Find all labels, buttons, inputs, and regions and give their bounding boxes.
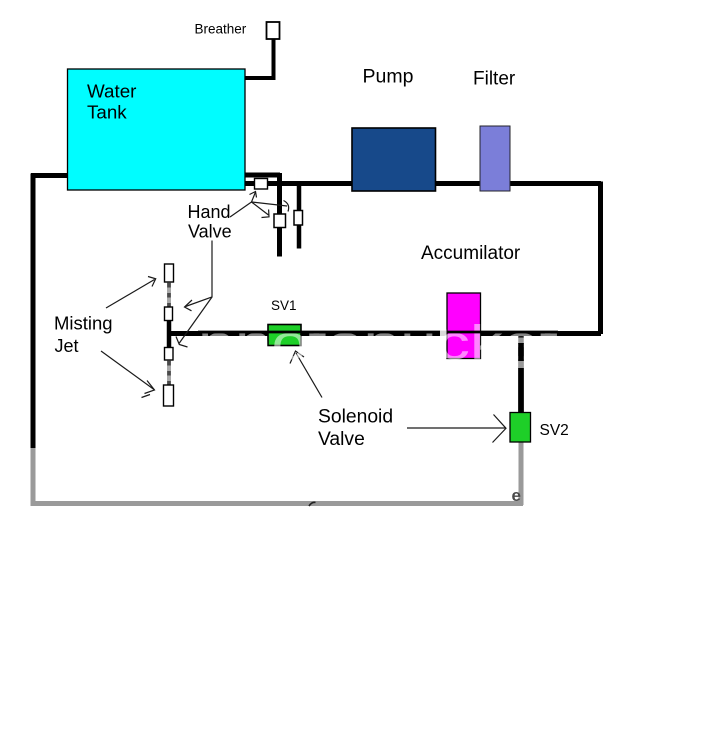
wire SV2 branch lower (grey) bbox=[519, 441, 524, 505]
solenoid valve SV1 bbox=[268, 325, 301, 346]
wire left vertical lower (grey) bbox=[31, 448, 36, 506]
arrow hand-valve down line to jet valves bbox=[176, 241, 212, 348]
svg-text:Pump: Pump bbox=[363, 66, 414, 88]
accumulator bbox=[447, 293, 481, 359]
svg-text:SV1: SV1 bbox=[271, 298, 297, 313]
hand valve box A on main pipe bbox=[255, 179, 268, 190]
svg-text:Valve: Valve bbox=[318, 429, 365, 450]
wire SV2 branch restored over watermark bbox=[518, 343, 524, 412]
svg-text:SV2: SV2 bbox=[540, 422, 569, 439]
misting jet riser: dashed segment 2 bbox=[167, 360, 171, 385]
svg-text:e: e bbox=[512, 486, 521, 505]
arrow hand-valve to box B bbox=[252, 202, 270, 218]
misting jet nozzle top bbox=[165, 264, 174, 282]
wire drop pipe 1 bbox=[277, 173, 282, 257]
svg-text:Water: Water bbox=[87, 81, 136, 102]
svg-text:Jet: Jet bbox=[55, 336, 79, 356]
misting jet riser: solid middle bbox=[167, 320, 172, 348]
arrow hand-valve to box C bbox=[252, 201, 289, 212]
arrow solenoid label to SV1 bbox=[290, 351, 322, 398]
wire right vertical pipe bbox=[598, 182, 603, 335]
jet hand valve upper bbox=[165, 307, 173, 321]
filter bbox=[480, 126, 510, 191]
solenoid valve SV2 bbox=[510, 413, 531, 443]
misting jet riser: dashed segment 1 bbox=[167, 282, 171, 307]
svg-text:Solenoid: Solenoid bbox=[318, 406, 393, 427]
svg-text:Accumilator: Accumilator bbox=[421, 243, 521, 264]
svg-text:photobucket: photobucket bbox=[198, 317, 558, 370]
watermark patches on SV2 branch bbox=[518, 338, 526, 344]
arrow misting label to top nozzle bbox=[106, 277, 156, 309]
arrow solenoid label to SV2 bbox=[407, 415, 506, 443]
jet hand valve lower bbox=[165, 348, 174, 361]
svg-text:Tank: Tank bbox=[87, 102, 127, 123]
arrow hand-valve to box A bbox=[230, 192, 257, 218]
wire drop pipe 2 bbox=[297, 186, 302, 249]
wire bottom return (grey) bbox=[31, 501, 523, 506]
watermark strong gap before accumulator bbox=[440, 330, 447, 338]
arrow misting label to bottom nozzle bbox=[101, 351, 155, 398]
wire lower horizontal pipe bbox=[169, 331, 601, 336]
hand valve box B on drop pipe 1 bbox=[274, 214, 286, 228]
misting jet nozzle bottom bbox=[164, 385, 174, 406]
wire breather arm to tank bbox=[245, 76, 276, 80]
svg-text:Breather: Breather bbox=[195, 21, 247, 36]
svg-text:Valve: Valve bbox=[188, 221, 232, 241]
breather box bbox=[267, 22, 280, 39]
stray mark on bottom line bbox=[309, 502, 316, 506]
wire left vertical upper (black) bbox=[31, 174, 36, 449]
water tank bbox=[68, 69, 246, 190]
svg-text:Filter: Filter bbox=[473, 68, 516, 89]
svg-text:Hand: Hand bbox=[188, 202, 231, 222]
wire left stub to tank bbox=[31, 173, 68, 178]
wire upper tank stub bbox=[245, 173, 280, 178]
svg-text:Misting: Misting bbox=[54, 312, 113, 333]
pump bbox=[352, 128, 436, 191]
wire SV2 branch upper (black) bbox=[518, 334, 524, 415]
wire pipe top edge restored over watermark bbox=[198, 331, 558, 334]
wire breather stem bbox=[272, 39, 276, 78]
wire main top pipe from tank to right side bbox=[244, 181, 601, 186]
hand valve box C on drop pipe 2 bbox=[294, 211, 303, 226]
